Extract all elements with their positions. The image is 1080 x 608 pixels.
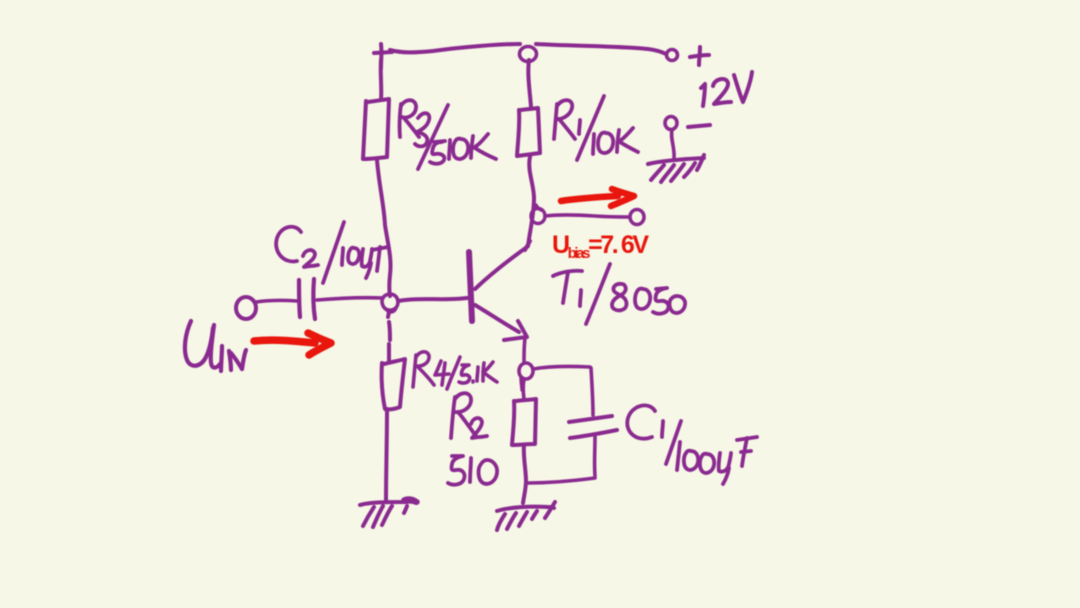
- label + (supply plus): [690, 47, 709, 65]
- label R2: [451, 393, 487, 438]
- capacitor C1: [569, 416, 617, 438]
- red arrow (output): [561, 189, 634, 206]
- node input circle: [236, 297, 256, 319]
- transistor collector line: [475, 241, 530, 289]
- transistor T1 base bar: [469, 252, 472, 321]
- wire C1 bottom to R2: [527, 478, 595, 483]
- wire C1 bottom lead: [593, 437, 597, 476]
- resistor R4: [382, 359, 405, 409]
- wire R1 bottom lead: [528, 157, 534, 246]
- node VCC top rail: [390, 44, 666, 54]
- wire base junction to R4: [388, 312, 390, 360]
- ground (supply): [648, 155, 704, 182]
- node + terminal mark (top of R3): [374, 44, 392, 68]
- wire minus to ground: [672, 130, 675, 158]
- ground (R2/C1): [497, 502, 555, 530]
- svg-text:Ubias=7. 6V: Ubias=7. 6V: [552, 231, 649, 262]
- wire R4 bottom lead: [386, 409, 387, 502]
- label UIN: [185, 321, 246, 371]
- node junction circle (rail / R1): [520, 47, 537, 62]
- label R4/5.1K: [413, 352, 497, 389]
- label R3/510K: [400, 100, 496, 169]
- wire emitter to C1: [533, 366, 590, 369]
- node supply + circle: [667, 50, 678, 61]
- wire R2 top lead: [521, 379, 525, 399]
- wire base: [398, 298, 467, 301]
- label R1/10K: [554, 96, 638, 160]
- transistor emitter line with arrow: [475, 305, 527, 340]
- wire R2 bottom lead: [523, 445, 526, 503]
- wire C2 to base junction: [317, 298, 383, 300]
- node base junction circle: [382, 294, 398, 312]
- wire R1 top lead: [528, 60, 531, 107]
- node supply - circle: [665, 117, 677, 130]
- resistor R1: [517, 108, 540, 156]
- node emitter circle: [519, 363, 533, 379]
- resistor R2: [512, 399, 536, 445]
- wire C1 top lead: [591, 368, 593, 415]
- node output circle left: [531, 209, 545, 224]
- resistor R3: [363, 99, 389, 159]
- red arrow (input): [254, 333, 331, 355]
- label - (supply minus): [688, 125, 710, 127]
- node output circle right: [630, 210, 644, 225]
- label C2/10uF: [276, 222, 388, 283]
- label C1/100uF: [627, 405, 757, 484]
- wire input terminal lead: [256, 300, 297, 302]
- label 510: [448, 456, 497, 485]
- wire R3 top lead: [379, 60, 384, 100]
- wire R3 bottom lead: [377, 160, 391, 296]
- wire output: [545, 215, 629, 217]
- ground (R4): [360, 499, 417, 527]
- capacitor C2: [299, 279, 315, 319]
- label T1/8050: [553, 264, 685, 324]
- label 12V: [701, 72, 752, 106]
- wire emitter stub: [524, 338, 525, 361]
